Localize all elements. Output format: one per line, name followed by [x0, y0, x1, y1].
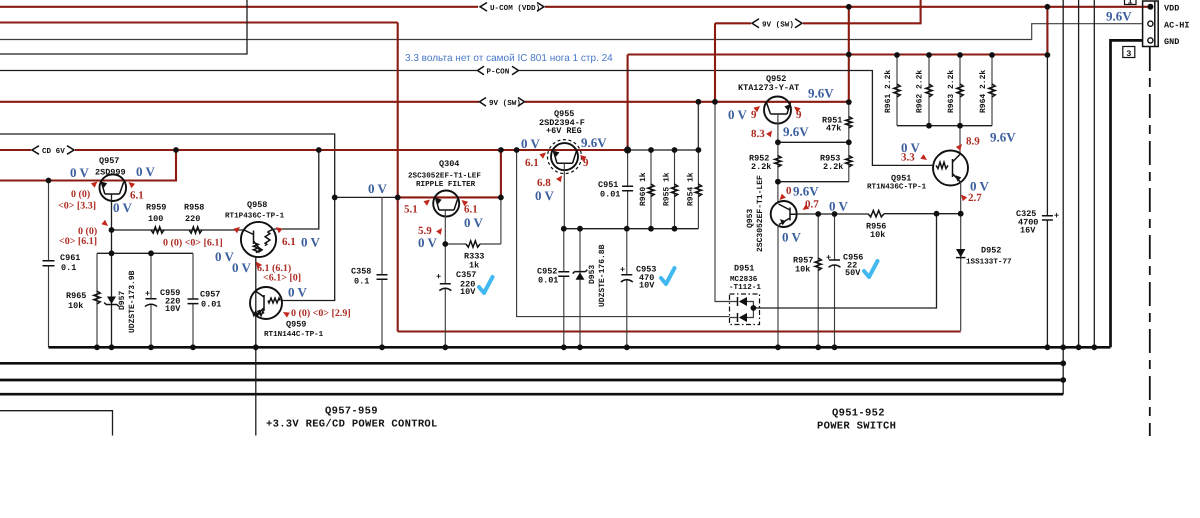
svg-text:D952: D952 [981, 246, 1001, 256]
resistor R333 [445, 197, 501, 244]
wire red U-COM drop to Q952 rail [848, 7, 850, 102]
svg-text:P-CON: P-CON [487, 68, 510, 77]
resistor R952 [777, 142, 779, 181]
resistor R963 [959, 55, 961, 126]
svg-text:RT1P436C-TP-1: RT1P436C-TP-1 [225, 212, 285, 221]
svg-text:0 V: 0 V [288, 285, 308, 300]
svg-text:10V: 10V [460, 287, 476, 297]
resistor R958 [189, 227, 202, 233]
wire P-CON line [0, 70, 477, 72]
capacitor C961 [48, 181, 50, 261]
svg-text:2.2k: 2.2k [823, 162, 843, 172]
svg-text:220: 220 [185, 214, 200, 224]
svg-text:0 V: 0 V [535, 188, 555, 203]
svg-text:+: + [826, 253, 831, 263]
wire GND heavy rail [1111, 40, 1143, 347]
wire Q951 emitter / D952 branch [960, 182, 962, 331]
svg-text:UDZSTE-176.8B: UDZSTE-176.8B [598, 244, 607, 307]
svg-text:+: + [436, 272, 441, 282]
svg-text:C961: C961 [60, 253, 80, 263]
svg-text:0 V: 0 V [232, 260, 252, 275]
svg-text:0 (0): 0 (0) [71, 189, 90, 200]
svg-text:0.01: 0.01 [600, 190, 620, 200]
svg-text:50V: 50V [845, 268, 861, 278]
pin GND [1148, 38, 1153, 43]
svg-text:6.1: 6.1 [130, 190, 144, 202]
wire Q958 collector to CD6V rail [274, 150, 319, 229]
svg-text:0.1: 0.1 [61, 263, 76, 273]
resistor R951 [848, 102, 850, 142]
pin number 3 [1123, 47, 1135, 58]
diode D957 zener [107, 297, 116, 305]
svg-text:0 V: 0 V [418, 235, 438, 250]
svg-text:Q953: Q953 [746, 209, 755, 228]
wire red Q304 collector line [398, 196, 501, 198]
svg-text:KTA1273-Y-AT: KTA1273-Y-AT [738, 83, 799, 93]
svg-text:2SC3052EF-T1-LEF: 2SC3052EF-T1-LEF [408, 172, 481, 181]
svg-text:<6.1> [0]: <6.1> [0] [263, 273, 301, 284]
wire red drop from U-COM to rail [1046, 7, 1048, 55]
svg-text:0 V: 0 V [136, 164, 156, 179]
svg-text:AC-HI: AC-HI [1164, 21, 1190, 31]
resistor R959 [151, 227, 164, 233]
svg-text:0 V: 0 V [782, 230, 802, 245]
resistor R954 [697, 150, 699, 229]
capacitor C959 electrolytic [150, 253, 152, 298]
svg-text:VDD: VDD [1164, 4, 1179, 14]
svg-text:D957: D957 [118, 291, 127, 310]
wire regulator emitter bus [564, 228, 699, 230]
wire Q955 base drop to D951 [517, 150, 730, 317]
svg-text:9V (SW): 9V (SW) [762, 20, 794, 29]
svg-text:0 V: 0 V [301, 235, 321, 250]
wire D951 output to Q951 emitter net [753, 214, 936, 308]
svg-text:2.7: 2.7 [968, 192, 982, 204]
svg-text:+3.3V REG/CD POWER CONTROL: +3.3V REG/CD POWER CONTROL [266, 419, 438, 431]
capacitor C952 [563, 229, 565, 348]
svg-text:0 V: 0 V [521, 136, 541, 151]
svg-text:R963 2.2k: R963 2.2k [947, 70, 956, 113]
svg-text:Q951-952: Q951-952 [832, 408, 885, 420]
wire vertical rail 3 [1078, 0, 1080, 347]
svg-text:Q304: Q304 [439, 159, 459, 169]
svg-text:16V: 16V [1020, 226, 1036, 236]
svg-text:<0> [6.1]: <0> [6.1] [59, 236, 97, 247]
wire ground bus 2 [0, 362, 1063, 365]
svg-text:-T112-1: -T112-1 [729, 283, 761, 292]
wire Q304 base feed [335, 196, 398, 198]
svg-text:+: + [1054, 211, 1059, 221]
svg-text:0.1: 0.1 [354, 277, 369, 287]
wire vertical rail 2 [1062, 0, 1064, 394]
svg-text:R958: R958 [184, 203, 204, 213]
wire switch feed to D951 [715, 102, 730, 301]
svg-text:R954 1k: R954 1k [687, 172, 696, 206]
svg-text:6.1: 6.1 [525, 157, 539, 169]
wire red main drop x397 [397, 23, 399, 332]
svg-text:9.6V: 9.6V [1106, 9, 1132, 24]
node blue checkmark C956 [864, 261, 878, 277]
svg-text:6.8: 6.8 [537, 177, 551, 189]
wire P-CON feed line to Q304 [0, 134, 335, 301]
wire ground bus 4 [0, 393, 1063, 396]
transistor Q953 [777, 182, 779, 202]
svg-text:10k: 10k [795, 265, 810, 275]
node P-CON label [478, 66, 519, 75]
resistor R956 [868, 211, 884, 217]
svg-text:2SC3052EF-T1-LEF: 2SC3052EF-T1-LEF [756, 175, 765, 252]
svg-text:1k: 1k [469, 261, 479, 271]
svg-text:R965: R965 [66, 291, 86, 301]
svg-text:R962 2.2k: R962 2.2k [916, 70, 925, 113]
transistor Q958 [241, 222, 276, 257]
wire R954 top riser to 9V rail [697, 102, 699, 150]
svg-text:+: + [145, 289, 150, 299]
svg-text:6.1: 6.1 [282, 236, 296, 248]
wire Q953 base row [797, 213, 868, 215]
svg-text:R959: R959 [146, 203, 166, 213]
svg-text:RIPPLE FILTER: RIPPLE FILTER [416, 181, 476, 189]
svg-text:POWER SWITCH: POWER SWITCH [817, 421, 896, 433]
svg-text:GND: GND [1164, 37, 1179, 47]
diode D953 zener [579, 229, 581, 348]
svg-text:3.3 вольта нет от самой IC 801: 3.3 вольта нет от самой IC 801 нога 1 ст… [405, 53, 613, 64]
svg-text:1SS133T-77: 1SS133T-77 [966, 258, 1012, 267]
wire red bottom rail to D952 [398, 330, 961, 332]
wire Q957 emitter stem down [111, 194, 113, 347]
diode D951 MC2836 dual [730, 294, 760, 325]
wire center stem below bus [255, 347, 257, 435]
svg-text:0: 0 [786, 185, 792, 197]
capacitor C357 electrolytic [444, 289, 446, 348]
svg-text:6.1: 6.1 [464, 204, 478, 216]
transistor Q951 [933, 151, 968, 186]
svg-text:9V (SW): 9V (SW) [489, 99, 521, 108]
resistor R955 [674, 150, 676, 229]
wire vertical rail 4 [1093, 0, 1095, 347]
pin VDD [1147, 4, 1153, 10]
svg-text:0 V: 0 V [829, 199, 849, 214]
svg-text:8.9: 8.9 [966, 136, 980, 148]
svg-text:0 V: 0 V [113, 200, 133, 215]
svg-text:C957: C957 [200, 290, 220, 300]
node 9V (SW) label [480, 98, 525, 107]
transistor Q959 [250, 287, 282, 319]
svg-text:0.01: 0.01 [538, 276, 558, 286]
wire red 9.6V distribution rail [628, 53, 1048, 55]
svg-text:Q959: Q959 [286, 320, 306, 330]
svg-text:R955 1k: R955 1k [663, 172, 672, 206]
wire ground bus 1 [49, 346, 1111, 349]
wire AC-HI line [0, 24, 1143, 40]
resistor R957 [817, 214, 819, 347]
wire red branch through Q957 [0, 150, 176, 181]
svg-text:0 V: 0 V [464, 215, 484, 230]
svg-text:+6V REG: +6V REG [546, 126, 582, 136]
resistor R953 [848, 142, 850, 181]
capacitor C951 [627, 150, 629, 229]
wire Q304 emitter [444, 210, 446, 284]
wire black segment of 6V rail to R954 [628, 149, 699, 151]
svg-text:1: 1 [1128, 0, 1133, 7]
connector CN VDD/AC-HI/GND [1143, 1, 1159, 47]
svg-text:D951: D951 [734, 264, 754, 274]
wire R961-R964 bottom tie [897, 125, 992, 127]
node main 6V junction [624, 146, 631, 153]
svg-text:0 (0) <0> [6.1]: 0 (0) <0> [6.1] [163, 238, 223, 249]
svg-text:5.1: 5.1 [404, 204, 418, 216]
svg-text:C357: C357 [456, 270, 476, 280]
wire red drop x627 [627, 55, 629, 151]
wire 9V(SW) red rail through Q952 [0, 101, 479, 103]
svg-text:9.6V: 9.6V [990, 130, 1016, 145]
svg-text:Q957-959: Q957-959 [325, 406, 378, 418]
svg-text:5.9: 5.9 [418, 225, 432, 237]
border dash-dot line [1149, 47, 1151, 436]
svg-text:C951: C951 [598, 180, 618, 190]
svg-text:100: 100 [148, 214, 163, 224]
svg-text:D953: D953 [588, 265, 597, 284]
wire R952/R953 bottom row [778, 181, 849, 183]
svg-text:0 V: 0 V [728, 107, 748, 122]
transistor Q955 [551, 143, 578, 170]
svg-text:RT1N436C-TP-1: RT1N436C-TP-1 [867, 183, 927, 192]
pin number 1 [1125, 0, 1137, 5]
diode D952 [956, 249, 965, 257]
svg-text:Q951: Q951 [891, 174, 911, 184]
wire CD 6V red rail [0, 149, 31, 151]
svg-text:10V: 10V [639, 281, 655, 291]
wire base row to Q958 [112, 229, 245, 231]
svg-text:MC2836: MC2836 [730, 275, 758, 284]
transistor Q952 [764, 97, 791, 124]
svg-text:10k: 10k [870, 230, 885, 240]
svg-text:0 V: 0 V [368, 181, 388, 196]
svg-text:8.3: 8.3 [751, 128, 765, 140]
node CD 6V label [32, 146, 74, 155]
svg-text:10V: 10V [165, 304, 181, 314]
svg-text:10k: 10k [68, 301, 83, 311]
transistor Q304 [433, 191, 459, 217]
capacitor C325 [1046, 55, 1048, 347]
pin AC-HI [1148, 21, 1153, 26]
wire top-left stub [0, 0, 247, 54]
transistor Q957 [100, 174, 127, 201]
svg-text:0.01: 0.01 [201, 300, 221, 310]
resistor R960 [650, 150, 652, 229]
svg-text:Q958: Q958 [247, 200, 267, 210]
wire U-COM (VDD) red top rail [0, 6, 478, 8]
svg-text:R964 2.2k: R964 2.2k [979, 70, 988, 113]
capacitor C358 [381, 197, 383, 347]
svg-text:<0> [3.3]: <0> [3.3] [58, 201, 96, 212]
svg-text:9.6V: 9.6V [581, 135, 607, 150]
resistor R965 [96, 253, 98, 347]
wire bottom-left section border [0, 411, 113, 436]
svg-text:9.6V: 9.6V [793, 184, 819, 199]
svg-text:Q957: Q957 [99, 156, 119, 166]
node red measurement arrows [91, 182, 98, 188]
svg-text:0 V: 0 V [70, 165, 90, 180]
svg-text:3.3: 3.3 [901, 152, 915, 164]
resistor R962 [928, 55, 930, 126]
svg-text:R960 1k: R960 1k [639, 172, 648, 206]
svg-text:C358: C358 [351, 267, 371, 277]
node junction dots [46, 4, 1098, 383]
wire red drop from CD6V to Q304 [500, 150, 502, 197]
wire Q951 collector riser [959, 126, 961, 154]
wire Q952 base row [778, 141, 849, 143]
svg-text:3: 3 [1126, 49, 1131, 59]
svg-text:CD 6V: CD 6V [42, 147, 65, 156]
wire ground bus 3 [0, 379, 1063, 382]
resistor R964 [991, 55, 993, 126]
wire red link from top 9V(SW) [714, 23, 716, 102]
wire Q955 emitter stem [563, 163, 565, 228]
resistor R961 [896, 55, 898, 126]
svg-text:2SD999: 2SD999 [95, 168, 126, 178]
wire 9V riser to regulator row [697, 102, 699, 150]
svg-text:2.2k: 2.2k [751, 162, 771, 172]
wire lower tie row [97, 252, 193, 254]
svg-text:47k: 47k [826, 124, 841, 134]
node U-COM label [480, 3, 544, 12]
svg-text:UDZSTE-173.9B: UDZSTE-173.9B [128, 270, 137, 333]
svg-text:+: + [620, 265, 625, 275]
capacitor C957 [192, 253, 194, 299]
wire Q953 emitter to ground [777, 225, 779, 347]
svg-text:9.6V: 9.6V [808, 86, 834, 101]
svg-text:R961 2.2k: R961 2.2k [884, 70, 893, 113]
node 9V (SW) top label [752, 19, 802, 28]
capacitor C953 electrolytic [626, 229, 628, 348]
svg-text:U-COM (VDD): U-COM (VDD) [490, 4, 540, 13]
capacitor C956 electrolytic [834, 214, 836, 347]
wire 9V(SW) upper red rail to top edge [0, 21, 398, 23]
svg-text:RT1N144C-TP-1: RT1N144C-TP-1 [264, 330, 324, 339]
wire Q958 emitter down through Q959 [255, 257, 257, 348]
node blue checkmark C953 [661, 268, 675, 284]
svg-text:0 (0) <0> [2.9]: 0 (0) <0> [2.9] [291, 308, 351, 319]
node blue checkmark C357 [479, 277, 493, 293]
svg-text:9.6V: 9.6V [783, 124, 809, 139]
